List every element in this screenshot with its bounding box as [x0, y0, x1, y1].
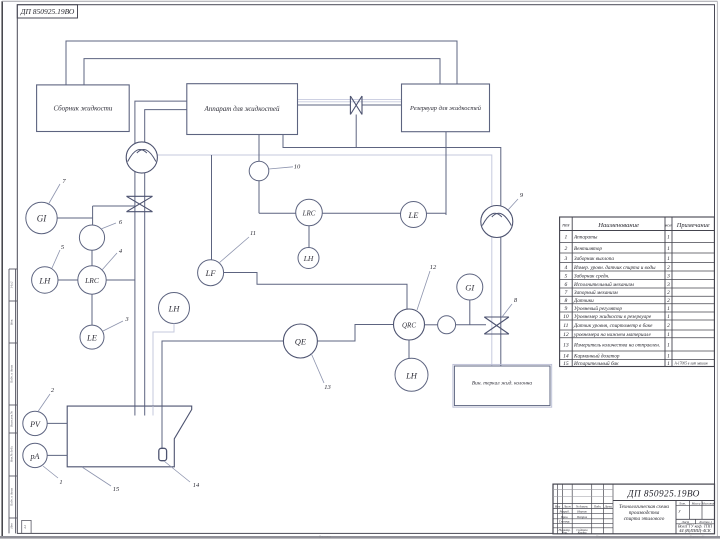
svg-text:11: 11 — [250, 230, 256, 237]
svg-text:10: 10 — [563, 314, 569, 320]
svg-text:1: 1 — [667, 306, 670, 312]
svg-text:Копировал: Копировал — [595, 534, 610, 538]
svg-text:1: 1 — [667, 235, 670, 241]
svg-text:Изм: Изм — [554, 505, 560, 509]
svg-text:Заборник средн.: Заборник средн. — [574, 272, 609, 279]
svg-text:5: 5 — [565, 273, 568, 279]
svg-text:4: 4 — [565, 265, 568, 271]
svg-text:Т.контр.: Т.контр. — [559, 520, 570, 524]
svg-text:Измеритель количества на отпра: Измеритель количества на отправлен. — [573, 342, 660, 348]
svg-text:Козлов: Козлов — [577, 531, 588, 535]
svg-text:Подп. и дата: Подп. и дата — [10, 488, 14, 508]
svg-text:44 (В)ПИЩ-4СК: 44 (В)ПИЩ-4СК — [679, 528, 712, 533]
svg-text:3: 3 — [666, 282, 670, 288]
svg-text:1: 1 — [667, 246, 670, 252]
svg-text:1: 1 — [667, 332, 670, 338]
svg-text:2: 2 — [565, 246, 568, 252]
svg-text:Масса: Масса — [691, 501, 701, 505]
svg-text:Формат А1: Формат А1 — [690, 534, 705, 538]
svg-text:производства: производства — [629, 509, 660, 516]
svg-text:Аппарат для жидкостей: Аппарат для жидкостей — [203, 105, 280, 113]
svg-text:А-17005 в лит машин: А-17005 в лит машин — [674, 362, 708, 366]
svg-text:А4: А4 — [23, 525, 27, 530]
svg-text:уровнемера на нижнем материале: уровнемера на нижнем материале — [573, 332, 651, 338]
svg-text:2: 2 — [667, 298, 670, 304]
svg-text:12: 12 — [430, 264, 437, 271]
svg-text:13: 13 — [324, 384, 331, 391]
svg-text:Примечание: Примечание — [676, 222, 710, 229]
svg-text:Заборник выхлопа: Заборник выхлопа — [574, 255, 614, 262]
svg-text:Петров: Петров — [576, 515, 588, 519]
svg-text:Резервуар для жидкостей: Резервуар для жидкостей — [409, 105, 482, 112]
svg-text:Лист: Лист — [563, 505, 572, 509]
svg-text:Измер. уровн. датчик спирта и: Измер. уровн. датчик спирта и воды — [573, 264, 656, 271]
svg-text:LRC: LRC — [84, 276, 100, 285]
svg-text:Наименование: Наименование — [597, 222, 639, 229]
svg-text:1: 1 — [667, 342, 670, 348]
svg-text:Дата: Дата — [604, 505, 613, 509]
svg-text:1: 1 — [667, 314, 670, 320]
svg-text:Лит.: Лит. — [678, 501, 686, 505]
svg-text:Испарительный бак: Испарительный бак — [573, 360, 619, 367]
svg-text:11: 11 — [563, 323, 568, 329]
svg-text:Инв.: Инв. — [10, 319, 14, 326]
svg-text:Инв.№ дубл.: Инв.№ дубл. — [10, 446, 14, 464]
svg-text:14.у2: 14.у2 — [10, 281, 14, 288]
svg-text:Вентилятор: Вентилятор — [574, 246, 602, 252]
svg-text:Подп.: Подп. — [593, 505, 602, 509]
svg-text:№ докум.: № докум. — [575, 505, 589, 509]
svg-text:Инв: Инв — [10, 523, 14, 530]
svg-text:8: 8 — [565, 298, 568, 304]
svg-text:Взам.инв.№: Взам.инв.№ — [10, 411, 14, 427]
svg-text:кол: кол — [665, 223, 671, 228]
svg-text:10: 10 — [294, 164, 301, 171]
svg-text:pA: pA — [30, 452, 40, 461]
svg-text:1: 1 — [667, 256, 670, 262]
svg-text:15: 15 — [563, 361, 569, 367]
svg-text:Уровневый регулятор: Уровневый регулятор — [574, 305, 622, 312]
svg-text:Иванов: Иванов — [576, 510, 587, 514]
svg-text:GI: GI — [37, 214, 47, 224]
svg-text:Карманный дозатор: Карманный дозатор — [573, 352, 620, 359]
svg-text:поз: поз — [562, 223, 569, 229]
svg-text:6: 6 — [565, 282, 568, 288]
svg-text:Сборник жидкости: Сборник жидкости — [53, 105, 112, 113]
svg-text:у: у — [678, 508, 681, 513]
svg-text:14: 14 — [193, 482, 200, 489]
svg-text:2: 2 — [667, 323, 670, 329]
svg-text:LE: LE — [408, 210, 420, 220]
svg-text:Аппараты: Аппараты — [573, 235, 598, 241]
svg-text:15: 15 — [113, 486, 120, 493]
svg-text:14: 14 — [563, 353, 569, 359]
svg-text:спирта этилового: спирта этилового — [624, 516, 665, 522]
svg-text:GI: GI — [465, 283, 475, 293]
svg-text:Вин. теркал жид. колонна: Вин. теркал жид. колонна — [472, 380, 533, 387]
svg-text:1: 1 — [59, 479, 62, 486]
svg-text:LF: LF — [205, 268, 217, 278]
svg-text:Датчики: Датчики — [573, 298, 594, 304]
svg-text:9: 9 — [565, 306, 568, 312]
svg-text:QE: QE — [295, 337, 307, 347]
svg-text:Утв.: Утв. — [561, 531, 568, 535]
svg-text:LH: LH — [38, 276, 51, 286]
svg-text:Описание: Описание — [319, 534, 332, 538]
svg-text:ДП 850925.19ВО: ДП 850925.19ВО — [627, 490, 700, 500]
svg-text:13: 13 — [563, 342, 569, 348]
svg-text:QRC: QRC — [402, 322, 416, 330]
svg-text:LRC: LRC — [302, 210, 316, 218]
svg-text:12: 12 — [563, 332, 569, 338]
svg-text:PV: PV — [29, 420, 41, 429]
svg-text:Запорный механизм: Запорный механизм — [574, 289, 618, 296]
svg-text:LH: LH — [303, 254, 314, 263]
svg-text:1: 1 — [667, 361, 670, 367]
svg-text:LH: LH — [168, 304, 181, 314]
svg-text:2: 2 — [667, 290, 670, 296]
svg-text:2: 2 — [667, 265, 670, 271]
svg-text:LE: LE — [86, 333, 98, 343]
svg-text:Масштаб: Масштаб — [701, 501, 716, 505]
svg-text:Подп. и дата: Подп. и дата — [10, 365, 14, 385]
svg-text:ДП 850925.19ВО: ДП 850925.19ВО — [20, 7, 75, 16]
svg-text:Пров.: Пров. — [560, 515, 569, 519]
svg-text:Уровнемер жидкости в резервуар: Уровнемер жидкости в резервуаре — [574, 313, 652, 320]
svg-text:1: 1 — [565, 235, 568, 241]
svg-text:Разраб.: Разраб. — [559, 510, 570, 514]
svg-text:7: 7 — [565, 290, 568, 296]
svg-text:LH: LH — [405, 370, 418, 380]
svg-text:Датчик уровня, спиртометр в ба: Датчик уровня, спиртометр в баке — [573, 322, 653, 329]
svg-text:Исполнительный механизм: Исполнительный механизм — [573, 281, 634, 288]
svg-text:1: 1 — [667, 353, 670, 359]
svg-text:3: 3 — [564, 256, 568, 262]
svg-text:3: 3 — [666, 273, 670, 279]
